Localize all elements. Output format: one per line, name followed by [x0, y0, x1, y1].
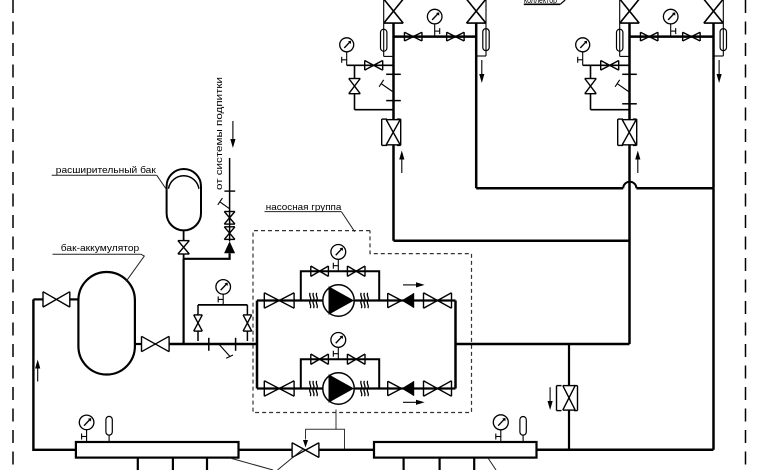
valve V-top-return x=713.5: [704, 0, 723, 23]
wire return header right part: [636, 187, 713, 190]
wire gauge line: [347, 64, 394, 66]
thermometer well left: [617, 0, 630, 56]
gauge pump bypass: [331, 245, 346, 272]
wire filter bypass: [355, 65, 394, 109]
dirt trap (strainer) on supply: [615, 74, 637, 104]
flow arrow up under control valve: [399, 151, 404, 174]
thermometer well right: [714, 0, 727, 56]
wire discharge run to riser: [456, 343, 630, 346]
pipe crossing hump: [623, 182, 636, 189]
valve gauge tap right: [243, 315, 252, 331]
wire pump suction header: [256, 301, 259, 389]
valve pump outlet: [424, 293, 452, 308]
flow arrow right: [403, 400, 425, 405]
label expansion tank: [52, 165, 167, 190]
wire circuit1 supply lower: [392, 145, 395, 240]
return manifold inlets: [404, 458, 475, 470]
wire pump branch y=300.5: [257, 299, 456, 301]
valve pump inlet: [264, 381, 294, 396]
thermometer on return manifold: [520, 417, 526, 443]
gauge manifold bar: [198, 305, 247, 341]
svg-text:расширительный бак: расширительный бак: [56, 165, 157, 175]
differential gauge: [216, 280, 231, 305]
return manifold: [374, 442, 537, 458]
check valve: [388, 381, 414, 396]
valve bypass left: [311, 266, 329, 276]
flow arrow down on return pipe: [479, 60, 484, 83]
svg-text:насосная группа: насосная группа: [266, 202, 342, 212]
thermometer on supply manifold: [106, 416, 112, 442]
gauge on top header: [427, 9, 442, 36]
pressure relief valve: [557, 386, 578, 411]
valve bypass right: [347, 266, 365, 276]
pump P: [323, 373, 354, 404]
wire suction pipe: [169, 343, 257, 346]
leader to supply manifold: [230, 458, 273, 470]
gauge before filter: [576, 38, 590, 66]
flex connector inlet: [310, 381, 318, 396]
label top collector (cut off): [524, 0, 565, 5]
page border dashed right: [745, 0, 747, 470]
label makeup system: [214, 77, 224, 190]
dashed enclosure pump group: [253, 231, 472, 413]
valve on filter bypass: [349, 79, 361, 94]
gauge before filter: [340, 38, 354, 66]
svg-text:бак-аккумулятор: бак-аккумулятор: [61, 243, 139, 253]
valve accumulator right: [142, 336, 170, 351]
valve on filter bypass: [585, 79, 597, 94]
wire pump discharge header: [454, 301, 457, 389]
valve accumulator left: [43, 292, 70, 307]
valve on gauge line: [365, 60, 383, 70]
dirt trap on suction: [209, 338, 236, 358]
leader to return manifold: [488, 458, 496, 470]
svg-text:от системы подпитки: от системы подпитки: [214, 77, 224, 190]
flow arrow right: [403, 282, 425, 287]
valve pump outlet: [424, 381, 452, 396]
valve V-top-supply x=393.5: [384, 0, 403, 23]
valve on top header left: [640, 32, 658, 41]
valve on top header right: [683, 32, 701, 41]
wire pump bypass loop: [301, 359, 379, 388]
flex connector outlet: [361, 293, 369, 308]
wire tank left stub: [70, 298, 79, 300]
wire makeup to tank stem: [184, 253, 230, 258]
wire manifold link left: [239, 449, 293, 451]
valve actuator arrow: [303, 429, 308, 448]
wire top header y=36.6: [630, 35, 714, 38]
gauge on return manifold: [493, 415, 508, 442]
valve under expansion tank: [178, 241, 189, 254]
wire filter bypass: [591, 65, 630, 109]
wire bottom right return run: [537, 449, 714, 452]
valve makeup 2: [224, 227, 235, 240]
expansion tank membrane: [169, 176, 199, 189]
wire return header left part: [476, 187, 623, 190]
thermometer well left: [381, 0, 394, 56]
dirt trap on makeup line: [218, 191, 235, 209]
label accumulator tank: [53, 243, 145, 281]
valve makeup 1: [224, 212, 235, 225]
wire makeup line: [229, 158, 231, 241]
valve on gauge line: [601, 60, 619, 70]
wire supply header y=240.8: [394, 240, 630, 243]
balancing control valve: [618, 119, 637, 145]
gauge on top header: [663, 9, 678, 36]
wire manifold link right: [319, 449, 374, 451]
flow arrow makeup inlet: [230, 121, 235, 148]
wire expansion stem lower: [183, 259, 185, 344]
wire return pipe x=476.2: [475, 23, 478, 188]
label pump group: [265, 202, 355, 232]
flow arrow at relief valve: [548, 387, 553, 410]
check valve makeup: [224, 241, 235, 253]
pump P: [323, 285, 354, 316]
valve pump inlet: [264, 293, 294, 308]
motorized mixing valve: [292, 443, 319, 458]
check valve: [388, 293, 414, 308]
wire top header y=36.6: [394, 35, 477, 38]
valve on top header left: [404, 32, 422, 41]
expansion tank: [167, 169, 201, 230]
leader to mixing valve: [278, 449, 304, 470]
dirt trap (strainer) on supply: [379, 74, 401, 100]
valve V-top-return x=476.2: [467, 0, 486, 23]
wire supply pipe upper x=393.5: [392, 23, 395, 119]
valve bypass right: [347, 354, 365, 364]
wire bypass drop: [568, 344, 570, 450]
wire gauge line: [583, 64, 630, 66]
flex connector outlet: [361, 381, 369, 396]
wire circuit2 return riser: [712, 188, 715, 450]
flow arrow down on return pipe: [717, 60, 722, 83]
page border dashed left: [12, 0, 14, 470]
thermometer well right: [476, 0, 489, 56]
accumulator tank: [78, 272, 134, 375]
wire expansion tank stem: [183, 230, 185, 258]
wire return pipe x=713.5: [712, 23, 715, 188]
balancing control valve: [382, 119, 401, 145]
wire left riser: [33, 299, 76, 449]
supply manifold: [76, 442, 239, 458]
valve bypass left: [311, 354, 329, 364]
wire supply pipe upper x=629.5: [628, 23, 631, 119]
wire circuit2 supply lower: [628, 145, 631, 344]
flex connector inlet: [310, 293, 318, 308]
gauge pump bypass: [331, 333, 346, 360]
flow arrow up under control valve: [635, 151, 640, 174]
wire pump branch y=388.5: [257, 387, 456, 389]
wire pump bypass loop: [301, 271, 379, 300]
valve gauge tap left: [194, 315, 203, 331]
valve on top header right: [447, 32, 465, 41]
flow arrow up on left riser: [35, 360, 40, 382]
valve V-top-supply x=629.5: [620, 0, 639, 23]
impulse line loop: [306, 410, 345, 450]
wire tank right stub: [135, 343, 142, 345]
supply manifold outlets: [138, 458, 207, 470]
gauge on supply manifold: [79, 415, 94, 442]
